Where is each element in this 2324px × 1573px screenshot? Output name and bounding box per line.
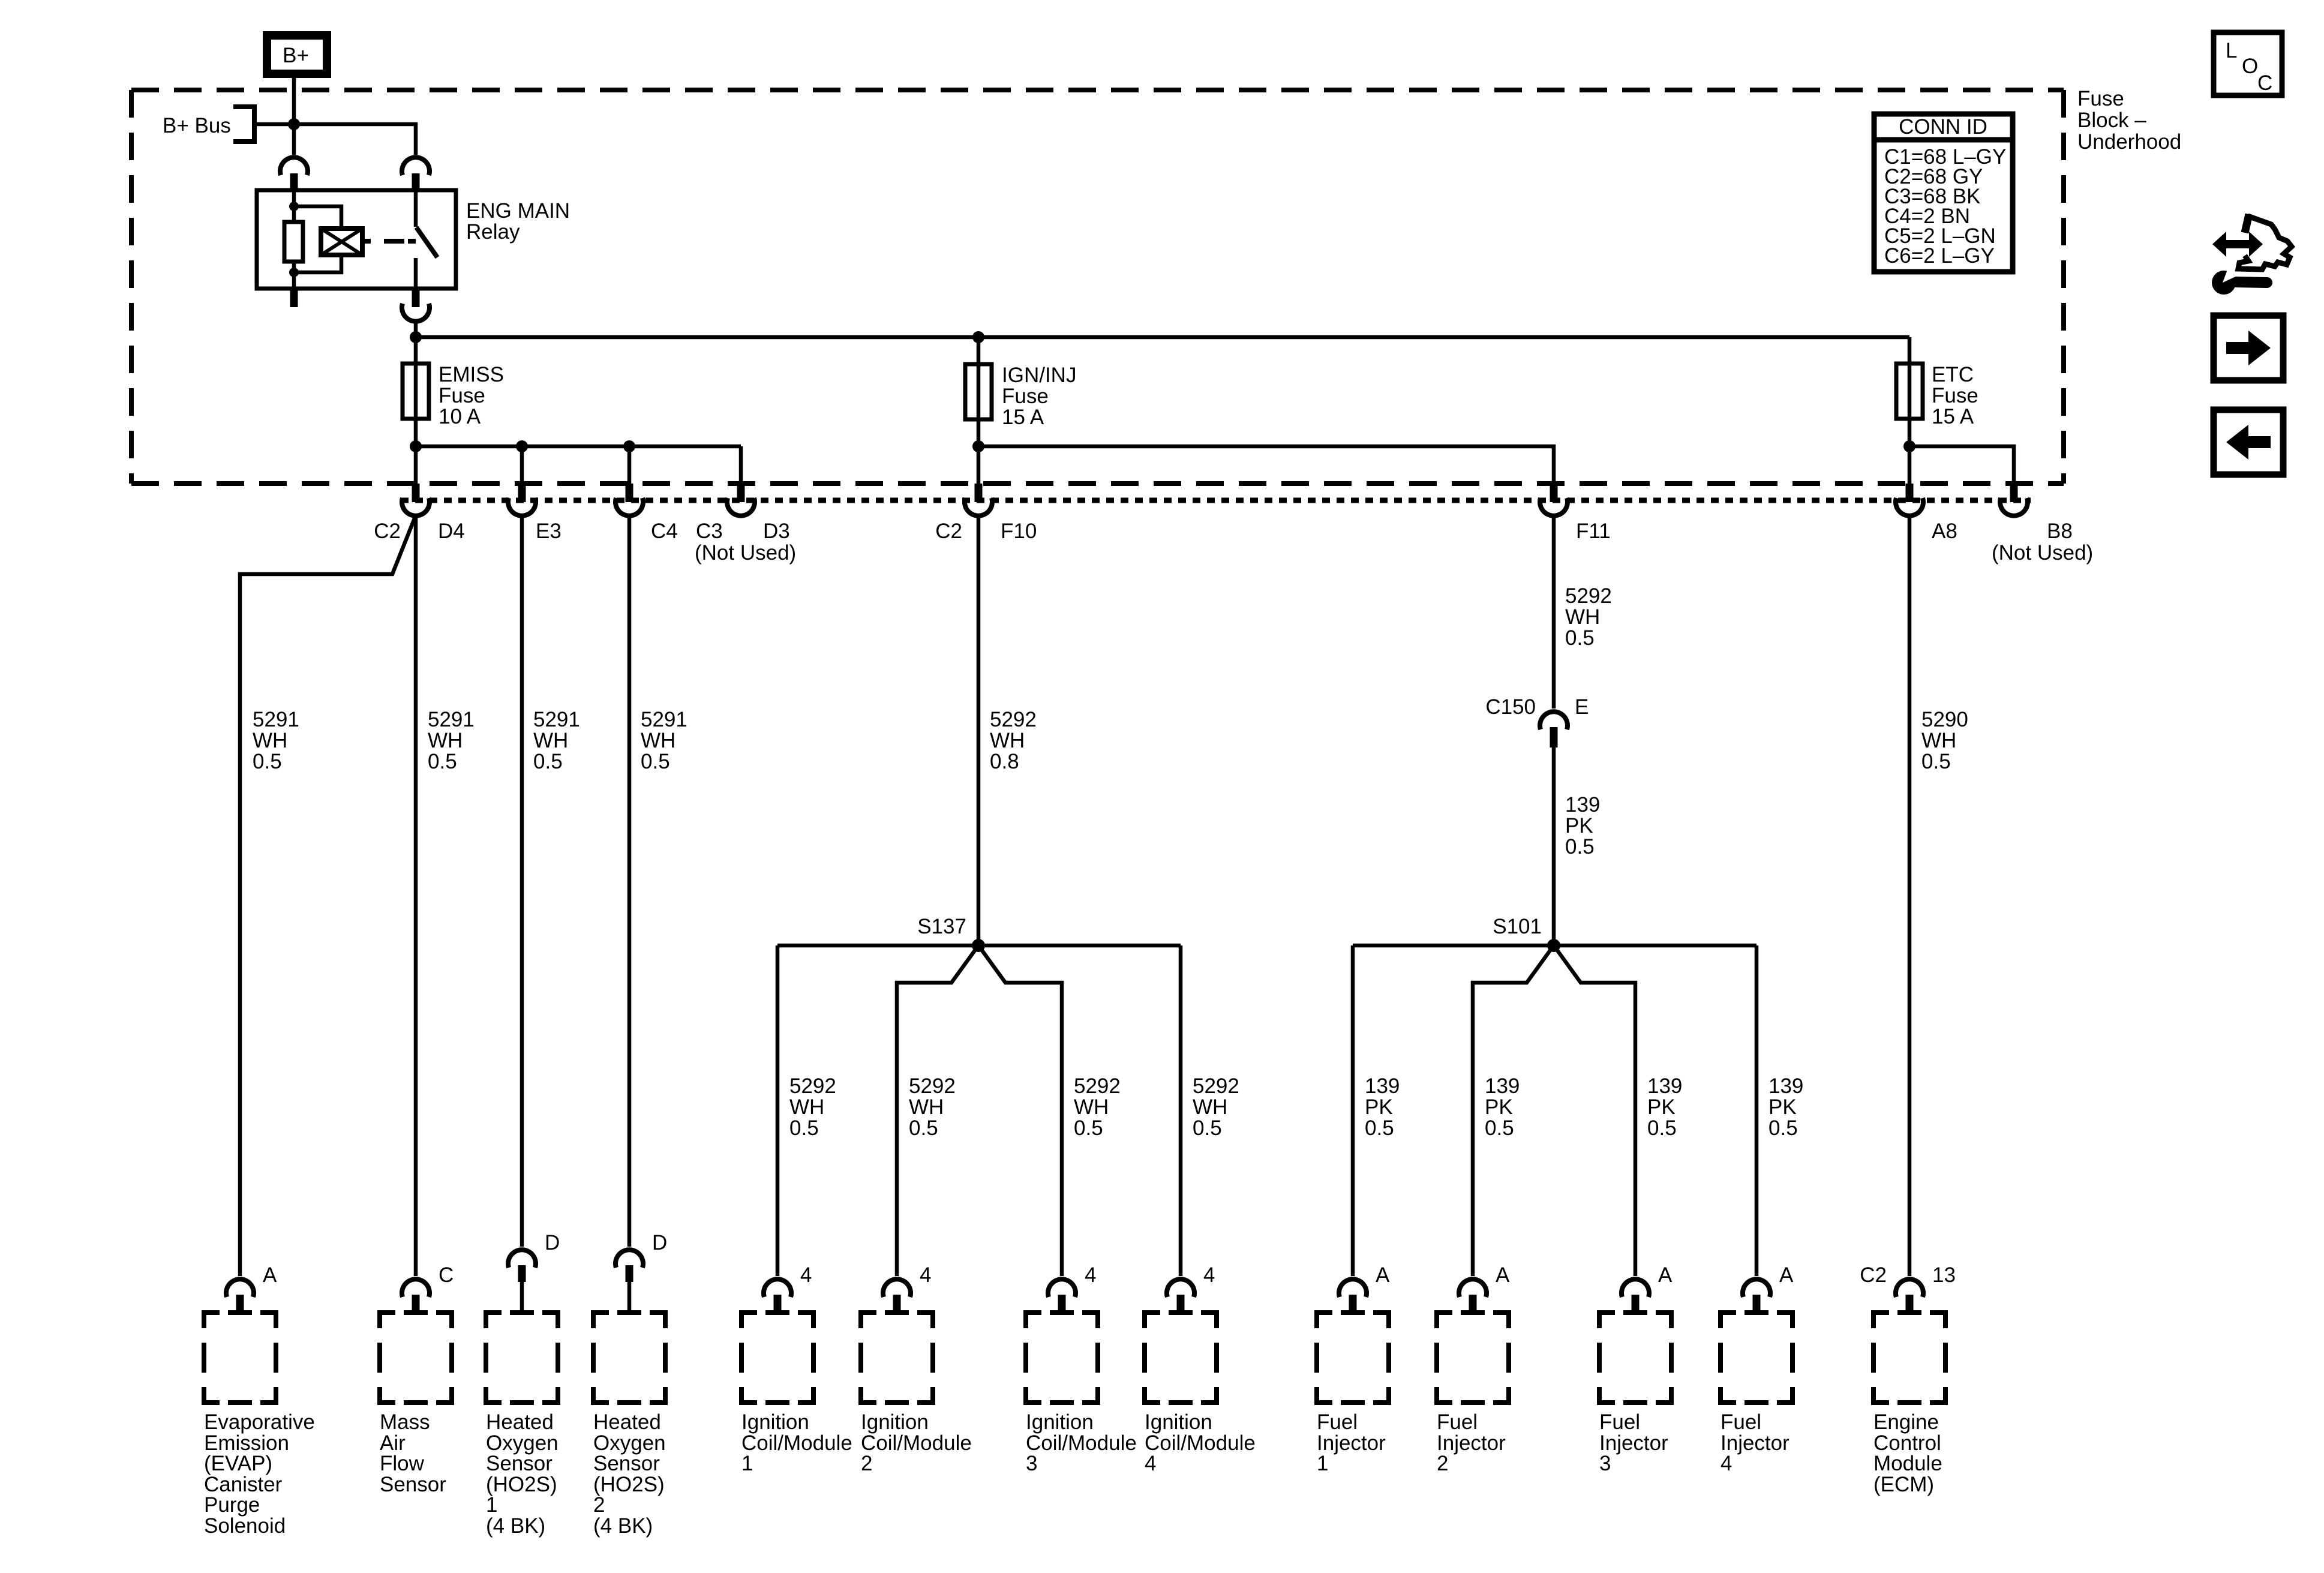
svg-text:WH: WH	[909, 1095, 944, 1119]
label (Not Used) right	[1992, 541, 2093, 565]
svg-text:0.5: 0.5	[1768, 1116, 1798, 1140]
wire coil top branch	[294, 206, 341, 229]
component box fuel injector 3	[1599, 1313, 1671, 1403]
svg-text:WH: WH	[1565, 605, 1600, 629]
svg-text:C2: C2	[935, 520, 962, 543]
wire EMISS fuse feed	[414, 337, 418, 446]
svg-text:5292: 5292	[1074, 1074, 1121, 1098]
pin label A at fuel injector 4	[1779, 1263, 1794, 1287]
component box fuel injector 2	[1437, 1313, 1509, 1403]
svg-text:WH: WH	[1074, 1095, 1109, 1119]
svg-text:1: 1	[1317, 1452, 1328, 1475]
svg-text:WH: WH	[990, 729, 1025, 752]
node tee to E3	[516, 440, 528, 452]
label EMISS Fuse 10 A	[439, 363, 504, 428]
pin label A at EVAP canister purge solenoid	[263, 1263, 277, 1287]
label ignition coil/module 2	[861, 1410, 972, 1475]
relay ENG MAIN box	[257, 190, 456, 289]
wire drop A8	[1908, 446, 1912, 485]
svg-text:C: C	[439, 1263, 454, 1287]
wire drop F10	[977, 446, 981, 485]
component box engine control module ECM	[1873, 1313, 1945, 1403]
component box EVAP canister purge solenoid	[204, 1313, 276, 1403]
svg-text:Fuse: Fuse	[2077, 87, 2124, 110]
component box heated oxygen sensor 1	[486, 1313, 558, 1403]
label ignition coil/module 4	[1145, 1410, 1256, 1475]
svg-text:WH: WH	[253, 729, 287, 752]
svg-text:Engine: Engine	[1873, 1410, 1939, 1434]
svg-text:S101: S101	[1493, 915, 1542, 938]
svg-text:Coil/Module: Coil/Module	[1145, 1431, 1256, 1455]
wire S101 to injector 3	[1554, 945, 1635, 1276]
svg-text:Heated: Heated	[486, 1410, 554, 1434]
svg-text:(Not Used): (Not Used)	[695, 541, 796, 565]
label circuit 139 PK 0.5 (inj 4)	[1768, 1074, 1803, 1140]
svg-text:0.5: 0.5	[1193, 1116, 1222, 1140]
connector at heated oxygen sensor 2	[615, 1250, 643, 1313]
svg-text:5292: 5292	[789, 1074, 836, 1098]
wire F11 to C150	[1552, 515, 1556, 709]
label S137	[917, 915, 966, 938]
svg-text:Fuel: Fuel	[1437, 1410, 1478, 1434]
svg-text:A: A	[263, 1263, 277, 1287]
svg-text:0.5: 0.5	[1074, 1116, 1103, 1140]
svg-text:A: A	[1376, 1263, 1390, 1287]
label circuit 5291 WH 0.5 (HO2S2)	[641, 708, 687, 773]
svg-text:4: 4	[1203, 1263, 1215, 1287]
hyperlink arrow box (forward)	[2214, 316, 2283, 380]
svg-text:F11: F11	[1576, 520, 1611, 543]
svg-text:4: 4	[1721, 1452, 1732, 1475]
svg-text:C2: C2	[1860, 1263, 1887, 1287]
label S101	[1493, 915, 1542, 938]
label circuit 5292 WH 0.5 (F11)	[1565, 584, 1612, 650]
label E	[1575, 695, 1589, 719]
svg-text:WH: WH	[641, 729, 675, 752]
component box ignition coil/module 1	[741, 1313, 813, 1403]
svg-text:Fuse: Fuse	[439, 384, 485, 407]
wire drop C4	[627, 446, 632, 485]
svg-text:WH: WH	[789, 1095, 824, 1119]
node relay coil bottom junction	[289, 268, 299, 277]
wire D4 to EVAP branch	[240, 515, 416, 1276]
svg-text:Coil/Module: Coil/Module	[1026, 1431, 1137, 1455]
pin label A at fuel injector 1	[1376, 1263, 1390, 1287]
pin label A at fuel injector 2	[1496, 1263, 1510, 1287]
node IGN/INJ bus tee	[972, 331, 984, 343]
svg-text:Fuel: Fuel	[1317, 1410, 1358, 1434]
node relay coil top junction	[289, 202, 299, 211]
svg-text:(EVAP): (EVAP)	[204, 1452, 272, 1475]
svg-text:2: 2	[1437, 1452, 1448, 1475]
connector relay pin (coil side)	[280, 157, 308, 191]
svg-text:Ignition: Ignition	[1145, 1410, 1212, 1434]
LOC legend box	[2214, 32, 2282, 95]
svg-text:WH: WH	[428, 729, 463, 752]
pin label 4 at ignition coil/module 3	[1085, 1263, 1096, 1287]
svg-text:CONN ID: CONN ID	[1899, 115, 1987, 139]
connector pin B8 (not used)	[2000, 484, 2028, 516]
pin label C at mass air flow sensor	[439, 1263, 454, 1287]
svg-text:Flow: Flow	[380, 1452, 425, 1475]
svg-text:PK: PK	[1365, 1095, 1393, 1119]
wire drop D4	[414, 446, 418, 485]
svg-text:A: A	[1658, 1263, 1673, 1287]
connector pin E3	[508, 484, 536, 516]
B+ Bus bracket symbol	[233, 104, 254, 144]
wire C150 to S101	[1552, 748, 1556, 945]
svg-text:0.5: 0.5	[1647, 1116, 1677, 1140]
svg-text:PK: PK	[1647, 1095, 1676, 1119]
fuse IGN/INJ 15A	[965, 364, 992, 419]
svg-text:B+: B+	[283, 44, 309, 67]
wire S101 to injector 2	[1473, 945, 1554, 1276]
svg-text:4: 4	[1145, 1452, 1156, 1475]
label C3	[696, 520, 723, 543]
svg-text:5292: 5292	[1565, 584, 1612, 608]
pin label C2 at engine control module ECM	[1860, 1263, 1887, 1287]
svg-text:13: 13	[1932, 1263, 1956, 1287]
svg-text:C2: C2	[374, 520, 401, 543]
svg-text:Purge: Purge	[204, 1493, 260, 1517]
component box ignition coil/module 4	[1145, 1313, 1217, 1403]
svg-text:Sensor: Sensor	[486, 1452, 553, 1475]
connector row dotted line (fuse block connectors)	[401, 498, 2031, 503]
wire IGN/INJ fuse feed	[977, 337, 981, 446]
component box fuel injector 1	[1317, 1313, 1389, 1403]
svg-text:0.5: 0.5	[428, 750, 457, 773]
connector at ignition coil/module 3	[1048, 1279, 1076, 1312]
relay coil symbol (box with X)	[321, 229, 362, 255]
wire ETC fuse feed	[1908, 337, 1912, 446]
svg-text:2: 2	[593, 1493, 605, 1517]
wire B+ Bus to junction	[254, 122, 294, 127]
svg-text:C3: C3	[696, 520, 723, 543]
svg-text:(Not Used): (Not Used)	[1992, 541, 2093, 565]
wire D4 to MAF	[414, 515, 418, 1276]
connector at ignition coil/module 4	[1167, 1279, 1194, 1312]
svg-text:ETC: ETC	[1932, 363, 1974, 386]
label circuit 5290 WH 0.5	[1921, 708, 1968, 773]
svg-text:Coil/Module: Coil/Module	[861, 1431, 972, 1455]
wire S137 to coil 1	[776, 945, 780, 1276]
wire switch contact tick	[408, 239, 416, 244]
label fuel injector 1	[1317, 1410, 1386, 1475]
wire S101 to injector 4	[1755, 945, 1759, 1276]
connector at EVAP canister purge solenoid	[226, 1279, 254, 1312]
svg-text:Ignition: Ignition	[1026, 1410, 1094, 1434]
connector at mass air flow sensor	[402, 1279, 430, 1312]
svg-text:5291: 5291	[428, 708, 475, 731]
svg-text:PK: PK	[1565, 814, 1593, 837]
svg-text:D4: D4	[438, 520, 465, 543]
svg-text:A8: A8	[1932, 520, 1957, 543]
svg-text:F10: F10	[1001, 520, 1037, 543]
svg-text:0.5: 0.5	[909, 1116, 938, 1140]
fuse block dashed border (Fuse Block - Underhood)	[131, 90, 2064, 484]
component box fuel injector 4	[1721, 1313, 1792, 1403]
svg-text:0.5: 0.5	[641, 750, 670, 773]
label (Not Used) left	[695, 541, 796, 565]
wire coil actuator stub	[362, 239, 371, 244]
svg-text:(4 BK): (4 BK)	[593, 1514, 653, 1538]
svg-text:0.5: 0.5	[533, 750, 563, 773]
svg-text:WH: WH	[533, 729, 568, 752]
svg-text:Block –: Block –	[2077, 109, 2146, 132]
wire B+ feed vertical	[292, 78, 296, 155]
svg-text:C: C	[2257, 71, 2272, 95]
splice S137	[972, 939, 985, 952]
connector at fuel injector 2	[1459, 1279, 1487, 1312]
connector relay output pin	[402, 289, 430, 322]
svg-text:0.5: 0.5	[1365, 1116, 1394, 1140]
pin label 4 at ignition coil/module 4	[1203, 1263, 1215, 1287]
svg-text:1: 1	[486, 1493, 497, 1517]
label A8	[1932, 520, 1957, 543]
label fuel injector 2	[1437, 1410, 1506, 1475]
svg-text:A: A	[1496, 1263, 1510, 1287]
connector C2 pin D4	[402, 484, 430, 516]
diagnostic icon: double arrow, outline, wrench	[2212, 214, 2292, 295]
svg-text:5292: 5292	[909, 1074, 956, 1098]
label engine control module ECM	[1873, 1410, 1942, 1496]
svg-text:4: 4	[1085, 1263, 1096, 1287]
wire actuator dashed link	[384, 239, 404, 244]
resistor relay coil suppression	[284, 222, 303, 262]
label circuit 139 PK 0.5 (inj 1)	[1365, 1074, 1400, 1140]
wire S101 to injector 1	[1351, 945, 1355, 1276]
wire drop D3	[739, 446, 743, 485]
svg-text:15 A: 15 A	[1932, 405, 1974, 428]
svg-text:WH: WH	[1921, 729, 1956, 752]
svg-text:139: 139	[1485, 1074, 1520, 1098]
svg-text:C150: C150	[1485, 695, 1536, 719]
wire relay coil leg upper	[292, 191, 296, 222]
label circuit 5291 WH 0.5 (MAF)	[428, 708, 475, 773]
connector at ignition coil/module 2	[883, 1279, 911, 1312]
connector at ignition coil/module 1	[764, 1279, 791, 1312]
svg-text:5292: 5292	[990, 708, 1037, 731]
component box ignition coil/module 2	[861, 1313, 933, 1403]
label circuit 5292 WH 0.5 (coil 4)	[1193, 1074, 1239, 1140]
wire S101 cross bus	[1353, 944, 1756, 948]
svg-text:Relay: Relay	[466, 220, 520, 244]
label fuel injector 4	[1721, 1410, 1789, 1475]
label ignition coil/module 1	[741, 1410, 852, 1475]
connector C3 pin D3 (not used)	[727, 484, 755, 516]
connector relay pin (switch side)	[402, 157, 430, 191]
svg-text:15 A: 15 A	[1002, 406, 1044, 429]
svg-text:0.5: 0.5	[1565, 835, 1595, 858]
connector pin C4	[615, 484, 643, 516]
node B+ bus junction	[288, 118, 300, 130]
svg-text:O: O	[2242, 55, 2258, 78]
svg-text:C4: C4	[651, 520, 678, 543]
svg-text:4: 4	[920, 1263, 931, 1287]
label F11	[1576, 520, 1611, 543]
label EVAP canister purge solenoid	[204, 1410, 315, 1538]
connector C2 pin F10	[965, 484, 992, 516]
svg-text:0.5: 0.5	[1921, 750, 1951, 773]
svg-text:PK: PK	[1768, 1095, 1797, 1119]
label Fuse Block - Underhood	[2077, 87, 2181, 154]
svg-text:5290: 5290	[1921, 708, 1968, 731]
svg-text:IGN/INJ: IGN/INJ	[1002, 364, 1076, 387]
svg-text:0.5: 0.5	[1565, 626, 1595, 650]
wire drop E3	[520, 446, 524, 485]
svg-text:Fuel: Fuel	[1721, 1410, 1761, 1434]
svg-text:WH: WH	[1193, 1095, 1227, 1119]
connector at fuel injector 1	[1339, 1279, 1367, 1312]
label circuit 5292 WH 0.5 (coil 1)	[789, 1074, 836, 1140]
CONN ID table	[1874, 114, 2013, 272]
svg-text:Fuse: Fuse	[1002, 385, 1049, 408]
svg-text:3: 3	[1026, 1452, 1037, 1475]
svg-text:(ECM): (ECM)	[1873, 1473, 1934, 1496]
svg-text:5291: 5291	[641, 708, 687, 731]
label C4	[651, 520, 678, 543]
svg-text:5292: 5292	[1193, 1074, 1239, 1098]
label C2	[374, 520, 401, 543]
svg-text:10 A: 10 A	[439, 405, 481, 428]
wire main feed bus	[416, 335, 1909, 340]
label mass air flow sensor	[380, 1410, 446, 1496]
node main bus at relay output	[410, 331, 422, 343]
svg-text:E3: E3	[536, 520, 562, 543]
svg-text:Heated: Heated	[593, 1410, 661, 1434]
wire junction to relay switch branch	[294, 124, 416, 155]
wire S137 to coil 3	[978, 945, 1062, 1276]
svg-text:E: E	[1575, 695, 1589, 719]
svg-text:Ignition: Ignition	[741, 1410, 809, 1434]
splice S101	[1547, 939, 1560, 952]
component box heated oxygen sensor 2	[593, 1313, 665, 1403]
svg-text:5291: 5291	[253, 708, 299, 731]
node tee to C4	[623, 440, 635, 452]
label F10	[1001, 520, 1037, 543]
connector at heated oxygen sensor 1	[508, 1250, 536, 1313]
B+ Bus label	[163, 114, 231, 137]
pin label A at fuel injector 3	[1658, 1263, 1673, 1287]
wire C4 to HO2S2	[627, 515, 632, 1247]
hyperlink arrow box (back)	[2214, 410, 2283, 475]
wire ETC output branch to B8	[1909, 446, 2014, 485]
svg-text:Fuel: Fuel	[1599, 1410, 1640, 1434]
node IGN/INJ fuse output	[972, 440, 984, 452]
svg-text:0.5: 0.5	[253, 750, 282, 773]
node EMISS fuse output	[410, 440, 422, 452]
connector at engine control module ECM	[1896, 1279, 1923, 1312]
wire relay switch lower leg	[414, 258, 418, 289]
label fuel injector 3	[1599, 1410, 1668, 1475]
wire F10 to S137	[977, 515, 981, 945]
svg-text:EMISS: EMISS	[439, 363, 504, 386]
pin label D at heated oxygen sensor 2	[652, 1231, 667, 1254]
svg-text:(4 BK): (4 BK)	[486, 1514, 545, 1538]
svg-text:Evaporative: Evaporative	[204, 1410, 315, 1434]
pin label 4 at ignition coil/module 2	[920, 1263, 931, 1287]
svg-text:139: 139	[1365, 1074, 1400, 1098]
label D3	[763, 520, 790, 543]
svg-text:Solenoid: Solenoid	[204, 1514, 286, 1538]
svg-text:Ignition: Ignition	[861, 1410, 929, 1434]
svg-text:Module: Module	[1873, 1452, 1942, 1475]
svg-text:A: A	[1779, 1263, 1794, 1287]
wire A8 to ECM	[1908, 515, 1912, 1276]
label ignition coil/module 3	[1026, 1410, 1137, 1475]
svg-text:2: 2	[861, 1452, 872, 1475]
label circuit 5291 WH 0.5 (EVAP)	[253, 708, 299, 773]
label heated oxygen sensor 1	[486, 1410, 559, 1538]
pin label D at heated oxygen sensor 1	[545, 1231, 560, 1254]
label D4	[438, 520, 465, 543]
label B8	[2047, 520, 2073, 543]
svg-text:D: D	[545, 1231, 560, 1254]
label ETC Fuse 15 A	[1932, 363, 1978, 428]
wire relay switch upper leg	[414, 191, 418, 227]
svg-text:4: 4	[800, 1263, 812, 1287]
connector at fuel injector 4	[1743, 1279, 1770, 1312]
svg-text:D: D	[652, 1231, 667, 1254]
component box ignition coil/module 3	[1026, 1313, 1098, 1403]
svg-text:ENG MAIN: ENG MAIN	[466, 199, 570, 223]
svg-text:0.5: 0.5	[789, 1116, 819, 1140]
wire S137 to coil 4	[1179, 945, 1183, 1276]
relay coil ground stub	[290, 289, 298, 307]
label C2 at F10	[935, 520, 962, 543]
fuse ETC 15A	[1896, 364, 1923, 419]
svg-text:0.5: 0.5	[1485, 1116, 1514, 1140]
svg-text:139: 139	[1565, 793, 1600, 816]
svg-text:5291: 5291	[533, 708, 580, 731]
label heated oxygen sensor 2	[593, 1410, 666, 1538]
wire E3 to HO2S1	[520, 515, 524, 1247]
label circuit 5292 WH 0.8	[990, 708, 1037, 773]
svg-text:L: L	[2226, 39, 2237, 62]
label ENG MAIN Relay	[466, 199, 570, 244]
svg-text:C6=2 L–GY: C6=2 L–GY	[1884, 244, 1995, 268]
svg-text:Sensor: Sensor	[380, 1473, 446, 1496]
svg-text:PK: PK	[1485, 1095, 1513, 1119]
fuse EMISS 10A	[403, 364, 429, 419]
pin label 13 at engine control module ECM	[1932, 1263, 1956, 1287]
label circuit 5292 WH 0.5 (coil 3)	[1074, 1074, 1121, 1140]
connector pin A8	[1896, 484, 1923, 516]
label IGN/INJ Fuse 15 A	[1002, 364, 1076, 429]
component box mass air flow sensor	[380, 1313, 452, 1403]
label circuit 5291 WH 0.5 (HO2S1)	[533, 708, 580, 773]
wire IGN/INJ output bus to F11	[978, 446, 1554, 485]
svg-text:Coil/Module: Coil/Module	[741, 1431, 852, 1455]
label circuit 139 PK 0.5 (inj 2)	[1485, 1074, 1520, 1140]
svg-text:B8: B8	[2047, 520, 2073, 543]
svg-text:S137: S137	[917, 915, 966, 938]
label circuit 5292 WH 0.5 (coil 2)	[909, 1074, 956, 1140]
svg-text:Underhood: Underhood	[2077, 130, 2181, 154]
svg-text:1: 1	[741, 1452, 753, 1475]
wire relay output to bus	[414, 321, 418, 337]
wire S137 cross bus	[777, 944, 1181, 948]
wire EMISS output bus	[416, 445, 741, 449]
relay switch blade	[416, 227, 437, 257]
wire S137 to coil 2	[897, 945, 978, 1276]
node ETC fuse output	[1903, 440, 1915, 452]
label circuit 139 PK 0.5 (inj 3)	[1647, 1074, 1682, 1140]
wire coil bottom branch	[294, 255, 341, 272]
svg-text:D3: D3	[763, 520, 790, 543]
svg-text:Sensor: Sensor	[593, 1452, 660, 1475]
svg-text:Fuse: Fuse	[1932, 384, 1978, 407]
